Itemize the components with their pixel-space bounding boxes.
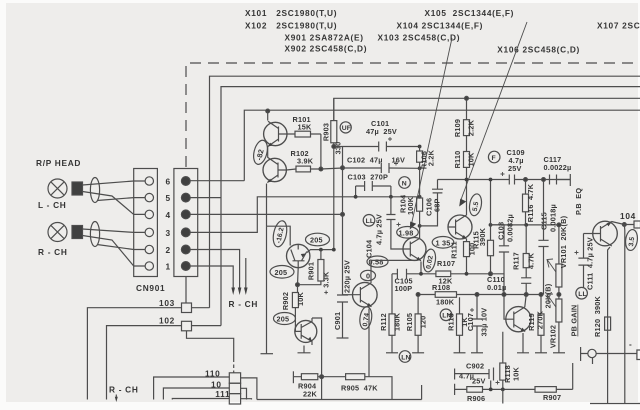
resistor R120	[605, 317, 611, 330]
bus line B1	[210, 76, 640, 308]
svg-text:33µ 10V: 33µ 10V	[480, 308, 489, 337]
bus line B2	[221, 87, 640, 326]
wire head L to pin6	[83, 181, 134, 185]
3.5 oval	[624, 229, 638, 251]
0.58 oval	[367, 256, 388, 267]
pin square 102	[182, 321, 192, 331]
-82 oval	[251, 139, 269, 166]
capacitor C107	[470, 295, 483, 353]
svg-text:R - CH: R - CH	[229, 299, 259, 309]
R902 label	[281, 291, 305, 310]
wire 102 down to 110	[187, 331, 234, 362]
X901 emitter wire	[297, 268, 300, 292]
svg-text:R901: R901	[307, 262, 316, 280]
svg-text:R112: R112	[379, 313, 388, 331]
svg-text:100P: 100P	[395, 284, 413, 293]
LL circle mid	[363, 215, 375, 227]
svg-text:LL: LL	[578, 291, 587, 298]
edge pin 104	[634, 221, 640, 228]
C902 top lead	[455, 369, 489, 380]
wire 102 right	[192, 325, 222, 327]
plus C102	[394, 162, 398, 166]
plug pin 6	[181, 177, 190, 186]
arrowheads R-CH	[231, 288, 247, 296]
LN circle 2	[399, 351, 411, 363]
socket pin 4	[145, 210, 153, 218]
svg-text:0.01µ: 0.01µ	[487, 283, 506, 292]
node dot R119 top	[539, 293, 543, 297]
R903 label	[322, 123, 343, 155]
LL circle right	[576, 287, 588, 299]
socket pin 6	[145, 177, 153, 185]
wire break dash	[233, 365, 235, 373]
R904 end bar	[292, 371, 294, 383]
resistor R101	[287, 131, 321, 137]
transistor X905	[353, 282, 378, 307]
plug pin 4	[181, 210, 190, 219]
X106 collector wire	[525, 295, 526, 308]
C105 label	[395, 277, 413, 294]
transistor X106	[506, 307, 531, 332]
node dots signal line	[354, 145, 422, 228]
wire R105	[417, 295, 419, 353]
node dots collector	[319, 248, 336, 252]
node dot VR102 top	[557, 293, 561, 297]
wire 103 right	[192, 307, 210, 309]
resistor R119	[535, 295, 547, 353]
svg-text:C111 4.7µ 25V: C111 4.7µ 25V	[586, 237, 595, 290]
C103 stubs	[356, 186, 391, 197]
bottom right rail	[590, 403, 640, 405]
node dots C109 line	[465, 178, 493, 182]
node dot X106 base	[502, 293, 506, 297]
capacitor C901	[337, 295, 348, 302]
resistor R107	[436, 271, 451, 277]
node dot R904	[320, 375, 324, 379]
X106 emitter wire	[517, 333, 529, 353]
wire 103 left	[87, 308, 181, 400]
svg-text:104: 104	[620, 211, 636, 221]
pin square 110	[229, 373, 240, 383]
ground R113	[454, 352, 466, 354]
resistor R113	[457, 314, 463, 335]
pointer arrowhead X103	[459, 199, 466, 207]
svg-text:X102 2SC1980(T,U): X102 2SC1980(T,U)	[245, 21, 337, 31]
svg-text:4.7µ 25V: 4.7µ 25V	[375, 214, 384, 245]
X105R emitter wire	[608, 247, 610, 404]
shielded cable L	[90, 178, 99, 203]
resistor R105	[415, 314, 421, 335]
R117 label	[512, 252, 536, 270]
wire 10 right	[241, 388, 247, 399]
plug pin 2	[181, 245, 190, 254]
R102 label	[291, 149, 314, 166]
X104 emitter wire	[420, 262, 422, 274]
C106 label	[425, 198, 442, 216]
svg-text:270K: 270K	[536, 310, 545, 329]
resistor R110	[464, 152, 470, 216]
svg-text:3.9K: 3.9K	[297, 157, 314, 166]
resistor R116	[523, 180, 529, 225]
VR101 label	[559, 215, 568, 268]
node dot emitter	[296, 283, 300, 287]
svg-text:F: F	[492, 155, 496, 162]
ground C901	[337, 337, 349, 339]
C115 label	[540, 204, 558, 232]
node dots R107 line	[419, 272, 468, 276]
wire arrow3	[245, 258, 247, 288]
5.5 oval	[468, 193, 483, 217]
svg-text:R - CH: R - CH	[38, 247, 68, 257]
wire R118 bottom	[502, 389, 504, 403]
F circle	[488, 151, 500, 163]
svg-text:10K: 10K	[296, 291, 305, 306]
transistor X104	[403, 238, 426, 261]
svg-text:205: 205	[310, 236, 323, 245]
X103 collector wire	[465, 214, 468, 216]
R104 label	[399, 194, 416, 215]
capacitor C108 loop	[491, 225, 510, 274]
svg-text:L - CH: L - CH	[38, 200, 66, 210]
capacitor C111	[575, 251, 589, 266]
wire pin1 arrow	[190, 266, 233, 288]
node dot C110 bottom	[524, 293, 528, 297]
0 oval	[361, 270, 376, 280]
node dot R109 top	[465, 96, 469, 100]
svg-text:C901: C901	[333, 312, 342, 330]
svg-text:R903: R903	[322, 123, 331, 141]
svg-text:C104: C104	[365, 239, 374, 258]
wire 111 left box	[172, 399, 229, 400]
bus line B4	[244, 110, 640, 181]
wire pin6 riser	[190, 180, 244, 182]
svg-text:PB GAIN: PB GAIN	[570, 305, 579, 337]
svg-text:C107: C107	[466, 313, 475, 331]
svg-text:68P: 68P	[433, 198, 442, 212]
R-CH bottom arrow	[115, 395, 117, 400]
svg-text:180K: 180K	[436, 298, 455, 307]
node dots output line	[489, 223, 528, 227]
resistor R117	[523, 225, 529, 278]
205 oval left	[270, 266, 294, 279]
node dot C115 top	[542, 178, 546, 182]
wire X102 emitter down	[266, 184, 268, 227]
head R-CH symbol	[48, 223, 67, 242]
svg-text:205: 205	[277, 315, 290, 324]
R904 label	[298, 382, 318, 399]
svg-text:N: N	[402, 180, 407, 187]
transistor X901	[287, 244, 310, 267]
svg-text:R907: R907	[543, 393, 561, 402]
wire R905	[322, 377, 392, 400]
svg-text:+ 3.3K: + 3.3K	[322, 271, 331, 294]
svg-text:47µ 25V: 47µ 25V	[366, 127, 397, 136]
resistor R109	[464, 98, 470, 151]
svg-text:-: -	[629, 339, 632, 349]
R109 label	[453, 119, 476, 137]
wire head R to pin1	[83, 236, 134, 267]
R105 label	[405, 313, 428, 331]
wire X901 collector to R901/C901	[307, 250, 334, 253]
C110 label	[487, 275, 506, 292]
C117 end bar	[557, 174, 571, 186]
R116 node dot	[524, 178, 528, 182]
svg-text:UF: UF	[342, 125, 351, 132]
R107 label	[437, 259, 455, 286]
pointer line to X104	[412, 38, 453, 224]
ground C107	[471, 352, 483, 354]
resistor R108	[435, 292, 456, 298]
svg-text:15K: 15K	[298, 123, 313, 132]
svg-text:100K: 100K	[406, 196, 415, 215]
wire 110 right	[241, 378, 257, 400]
C107 label	[466, 308, 489, 337]
capacitor C103	[356, 181, 391, 191]
plug L	[72, 182, 83, 195]
svg-text:R906: R906	[467, 394, 485, 403]
svg-text:103: 103	[159, 298, 175, 308]
wire C902 down	[490, 381, 492, 390]
svg-text:R105: R105	[405, 313, 414, 331]
svg-text:10K: 10K	[467, 152, 476, 167]
wire collector to edge pin	[612, 222, 635, 225]
svg-text:2: 2	[166, 245, 171, 255]
svg-text:180K: 180K	[393, 312, 402, 331]
svg-text:2.2K: 2.2K	[467, 119, 476, 136]
svg-text:X901 2SA872A(E): X901 2SA872A(E)	[285, 33, 364, 43]
PB output wire	[581, 347, 637, 361]
wire 102 left	[107, 326, 182, 400]
wire pin3 signal	[190, 197, 419, 233]
svg-text:C103 270P: C103 270P	[348, 173, 389, 182]
plug R	[72, 226, 83, 239]
resistor R903	[331, 98, 337, 249]
X902 emitter ground	[298, 346, 311, 353]
svg-text:102: 102	[159, 316, 175, 326]
wire R107 line	[392, 273, 490, 275]
wire 104 node down	[623, 225, 626, 404]
svg-text:220µ 25V: 220µ 25V	[343, 260, 352, 293]
transistor X102	[263, 157, 286, 182]
capacitor C102	[343, 163, 420, 173]
R110 label	[453, 151, 476, 169]
N circle	[399, 177, 411, 189]
wire R906 line	[455, 384, 573, 395]
board boundary dashed line	[186, 63, 640, 167]
svg-text:VR102: VR102	[549, 325, 558, 348]
C111 column	[583, 234, 585, 288]
wire R101/R102 join	[321, 134, 343, 169]
part list text block	[245, 8, 640, 55]
chassis ground circle	[588, 349, 596, 364]
node dot bus B4	[266, 109, 270, 113]
socket pin 2	[145, 245, 153, 253]
ground R112	[386, 352, 398, 354]
R120 label	[593, 296, 602, 337]
R108 label	[432, 283, 455, 307]
pin square 103	[182, 303, 192, 313]
svg-text:R902: R902	[281, 292, 290, 310]
capacitor C110	[521, 278, 531, 295]
UF circle	[340, 122, 351, 133]
socket pin 1	[145, 262, 153, 270]
svg-text:0.0082µ: 0.0082µ	[506, 214, 515, 242]
C101 label	[366, 119, 397, 136]
head L-CH symbol	[48, 179, 67, 198]
node dot VR101 top	[557, 223, 561, 227]
transistor X101	[264, 121, 287, 146]
R119 label	[527, 310, 545, 331]
resistor R907	[535, 387, 556, 393]
svg-text:R111: R111	[450, 241, 459, 258]
svg-text:R107: R107	[437, 259, 455, 268]
capacitor C902	[489, 368, 500, 385]
svg-text:1: 1	[166, 262, 171, 272]
resistor R118	[500, 332, 506, 390]
svg-text:R117: R117	[512, 252, 521, 270]
node dots R906	[489, 388, 505, 392]
svg-text:X106 2SC458(C,D): X106 2SC458(C,D)	[497, 45, 580, 55]
svg-text:X107 2SC: X107 2SC	[597, 21, 640, 31]
wire C109 line	[467, 179, 571, 181]
svg-text:P.B EQ: P.B EQ	[574, 188, 583, 215]
svg-text:R/P HEAD: R/P HEAD	[36, 158, 81, 168]
plug pin 5	[181, 193, 190, 202]
R118 label	[503, 365, 521, 383]
X905 collector wire	[371, 260, 417, 283]
C117 label	[544, 155, 572, 172]
svg-text:1.98: 1.98	[399, 228, 414, 237]
svg-text:LN: LN	[401, 354, 410, 361]
wire R112 top	[391, 274, 393, 314]
plug pin 3	[181, 228, 190, 237]
svg-text:3: 3	[166, 228, 171, 238]
wire gnd267	[266, 226, 268, 354]
svg-text:0.0022µ: 0.0022µ	[544, 163, 572, 172]
X103 emitter wire	[466, 239, 468, 242]
svg-text:5: 5	[166, 193, 171, 203]
135 oval	[432, 237, 454, 249]
wire C108 to X106 base	[503, 274, 505, 295]
bus line B3	[334, 98, 640, 120]
X905 emitter wire	[368, 309, 370, 377]
wire head L to pin4	[83, 192, 134, 215]
205 oval top	[306, 233, 330, 246]
node dot R102 right	[319, 167, 323, 171]
svg-text:22K: 22K	[303, 390, 318, 399]
svg-text:X103 2SC458(C,D): X103 2SC458(C,D)	[378, 33, 461, 43]
resistor R112	[389, 314, 395, 353]
C104 label	[365, 214, 384, 258]
wire R113	[459, 297, 461, 353]
0.74 oval	[358, 306, 373, 330]
svg-text:VR101 20K(B): VR101 20K(B)	[559, 215, 568, 268]
resistor R904	[293, 374, 321, 380]
capacitor C109	[501, 172, 515, 185]
205 oval third	[274, 313, 296, 325]
svg-text:111: 111	[215, 389, 230, 399]
wire 111 right	[241, 398, 252, 401]
wire pin2 arrow	[190, 250, 239, 289]
shielded cable R	[90, 222, 99, 247]
wire 110 left box	[154, 377, 230, 400]
svg-text:R108: R108	[432, 283, 450, 292]
0.02 oval	[422, 248, 437, 273]
pin square 10	[229, 383, 240, 393]
resistor R906	[467, 387, 483, 393]
svg-text:R116 4.7K: R116 4.7K	[526, 183, 535, 222]
svg-text:6: 6	[166, 177, 171, 187]
svg-text:LL: LL	[366, 218, 375, 225]
wire R907 up	[572, 363, 574, 389]
connector CN901 socket box	[134, 169, 158, 277]
wire C101 line	[334, 146, 420, 148]
ground bar 267	[261, 353, 274, 355]
svg-text:0: 0	[366, 272, 370, 281]
capacitor C106	[420, 180, 443, 226]
svg-text:205: 205	[275, 268, 288, 277]
svg-text:C108: C108	[497, 222, 506, 240]
resistor R104	[417, 197, 423, 239]
resistor R106	[417, 147, 423, 197]
resistor R111	[464, 242, 470, 274]
capacitor C101	[379, 137, 392, 152]
resistor R115	[488, 180, 494, 274]
svg-text:R - CH: R - CH	[109, 385, 139, 395]
pointer line to X103	[461, 22, 528, 201]
capacitor C104	[386, 197, 403, 249]
ground R105	[412, 352, 424, 354]
node dot R105 top	[416, 293, 420, 297]
X905 base wire	[343, 294, 353, 296]
svg-text:X104 2SC1344(E,F): X104 2SC1344(E,F)	[397, 21, 484, 31]
R111 label	[450, 241, 477, 258]
R101 label	[293, 115, 313, 132]
wire R108 line	[418, 294, 543, 296]
transistor X103	[448, 215, 472, 239]
C901 wire	[342, 214, 344, 338]
node dot R115 bottom	[489, 272, 493, 276]
C902 label	[459, 362, 486, 386]
svg-text:3.5: 3.5	[628, 236, 636, 247]
wire shield R to pin2	[97, 245, 134, 250]
capacitor C117	[550, 175, 557, 185]
capacitor C105	[397, 269, 406, 279]
transistor X902	[295, 318, 317, 345]
connector plug box	[174, 169, 198, 277]
svg-text:X101 2SC1980(T,U): X101 2SC1980(T,U)	[245, 8, 337, 18]
svg-text:25V: 25V	[472, 377, 486, 386]
node dot 104	[622, 223, 626, 227]
resistor R902	[292, 292, 298, 325]
wire head R to pin3	[83, 229, 134, 232]
wire EQ output	[491, 224, 559, 226]
svg-text:0.0018µ: 0.0018µ	[549, 204, 558, 232]
pin square 111	[229, 394, 240, 404]
svg-text:4.7K: 4.7K	[527, 252, 536, 269]
node dot rail343	[341, 213, 345, 217]
plug pin 1	[181, 262, 190, 271]
svg-text:120: 120	[419, 316, 428, 329]
svg-text:C902: C902	[466, 362, 484, 371]
wire 10 left box	[163, 388, 229, 400]
svg-text:25V: 25V	[508, 164, 522, 173]
X105R base wire	[584, 233, 592, 235]
1.98 oval	[397, 227, 419, 239]
svg-text:2.2K: 2.2K	[427, 149, 436, 166]
bottom wire	[257, 385, 422, 400]
wire pin5 to bus B2	[190, 197, 221, 199]
